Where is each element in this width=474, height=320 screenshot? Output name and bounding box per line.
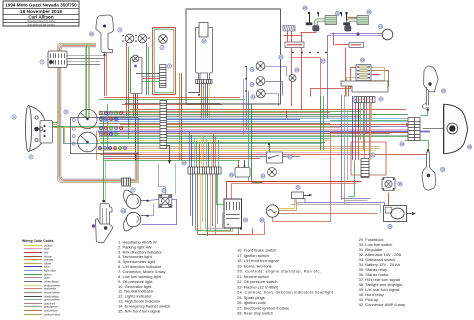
svg-text:27: 27 (379, 97, 383, 101)
wire starter motor positive (407, 213, 413, 215)
svg-text:22. Oil pressure switch: 22. Oil pressure switch (237, 279, 277, 284)
svg-text:34: 34 (244, 218, 248, 222)
wire drop to strip 5 (199, 144, 201, 167)
controls board (right handlebar switch 20) (153, 28, 176, 95)
spark plug cap right (345, 26, 351, 32)
coil low-voltage connector left (285, 42, 304, 48)
ignition switch key box (199, 23, 208, 38)
svg-text:27: 27 (279, 55, 283, 59)
svg-text:41: 41 (379, 25, 383, 29)
panel lamp pin cluster lower (99, 126, 102, 129)
wire center vertical bundle (248, 95, 250, 182)
wire harness run y124.6 (120, 124, 406, 126)
svg-text:23: 23 (295, 68, 299, 72)
svg-text:16. Front brake switch: 16. Front brake switch (237, 248, 276, 253)
label callout 15 (250, 67, 254, 71)
svg-text:42: 42 (371, 153, 375, 157)
label callout 29 (360, 58, 364, 62)
svg-text:17. Ignition switch: 17. Ignition switch (237, 253, 269, 258)
svg-text:31: 31 (296, 186, 300, 190)
svg-text:26: 26 (367, 10, 371, 14)
wire harness run y148.0 (99, 148, 380, 150)
label callout 27 (279, 55, 283, 59)
wire ignition switch lead 3 (205, 84, 207, 119)
wire stoplight run arrow (406, 123, 410, 126)
svg-text:17: 17 (202, 39, 206, 43)
wire harness run y150.0 (100, 150, 376, 152)
wire harness branch strand 1 (85, 45, 87, 119)
wire below strip x202.5 (202, 174, 204, 222)
flasher unit 23 (235, 168, 250, 178)
legend swatch yellow/white (24, 285, 42, 287)
legend swatch brown (24, 256, 42, 258)
wire coil-to-coil pair (348, 17, 357, 19)
wire harness run y158.5 (103, 158, 260, 160)
title block (3, 1, 79, 26)
legend swatch blue (24, 266, 42, 268)
connector Molex (dash harness) (48, 51, 67, 68)
lever blade (96, 219, 114, 243)
wire alternator output run (278, 213, 378, 215)
svg-text:20. Controls: engine start/sto: 20. Controls: engine start/stop, Run etc… (237, 269, 321, 274)
wire drop to strip 1 (189, 132, 191, 167)
connector pin dots (292, 52, 294, 54)
legend swatch brown/white (24, 292, 42, 294)
label callout 1 (12, 115, 16, 119)
wire harness run y116.0 (100, 116, 361, 118)
wire drop to strip 13 (218, 140, 220, 167)
wire board drop 1 (179, 73, 181, 160)
wire headlamp lead 2 (50, 124, 58, 126)
wire harness run y156.5 (103, 156, 300, 158)
label callout 35 (398, 182, 402, 186)
svg-text:yellow/black: yellow/black (44, 313, 61, 317)
wire harness branch strand 4 (89, 45, 91, 119)
wire drop to strip 8 (206, 139, 208, 167)
ignition coil 26 left HT cable (316, 20, 326, 26)
ignition coil 26 right body (357, 16, 368, 25)
svg-text:23: 23 (230, 173, 234, 177)
label callout 38 (467, 145, 471, 149)
svg-text:Carl Allison: Carl Allison (28, 14, 54, 19)
label callout 24 (121, 209, 125, 213)
wire harness run y135.0 (100, 135, 420, 137)
label callout 17 (202, 39, 206, 43)
wire module lead 5 (366, 103, 368, 134)
svg-text:32: 32 (260, 218, 264, 222)
wire neutral switch feed (269, 144, 271, 152)
legend swatch red (24, 252, 42, 254)
lower connector strip (188, 167, 221, 174)
starter motor 36 (384, 206, 407, 222)
wire drop to strip 9 (208, 142, 210, 167)
regulator 31 (292, 192, 304, 199)
connector ladder lower (160, 101, 167, 149)
wire orange drop (96, 131, 98, 160)
ignition coil 26 right HT cable (348, 20, 358, 26)
label callout 22 (261, 174, 265, 178)
wire below strip x200 (200, 174, 202, 232)
ground lead (164, 146, 170, 161)
headlamp 1 (26, 106, 32, 152)
legend swatch red/yellow (24, 310, 42, 312)
connector ladder upper (160, 65, 167, 88)
wire module lead 3 (360, 103, 362, 140)
headlamp connector (40, 121, 53, 144)
label callout 27 (379, 97, 383, 101)
horn relay 40 (159, 195, 172, 208)
wire starter relay to motor (388, 193, 390, 207)
ignition switch connector (196, 80, 213, 84)
R/H front turn signal 15 (256, 62, 265, 71)
panel terminal circles (72, 119, 75, 122)
wire below strip x195 (195, 174, 197, 230)
svg-text:35: 35 (398, 182, 402, 186)
electronic ignition module 27 (341, 81, 388, 92)
svg-text:and wiring of the model: and wiring of the model (28, 22, 55, 26)
wire below strip x207.5 (207, 174, 209, 236)
wire horn leads (148, 200, 159, 201)
wire harness run y114.4 (99, 114, 408, 116)
wire harness run y109.5 (130, 109, 406, 111)
label callout 41 (378, 24, 382, 28)
label callout 7 (167, 64, 171, 68)
alternator 32 (266, 205, 278, 217)
svg-text:27: 27 (321, 59, 325, 63)
wire harness branch strand 3 (88, 45, 90, 119)
tachometer 4 (78, 109, 97, 128)
legend swatch gray/red (24, 303, 42, 305)
spark plug cap left (313, 26, 319, 32)
svg-text:25: 25 (303, 6, 307, 10)
svg-text:18. L/H front turn signal: 18. L/H front turn signal (237, 258, 279, 263)
pick up 41 (382, 29, 393, 40)
wire below strip x215 (215, 174, 217, 234)
wire harness run y131.2 (98, 131, 430, 133)
legend swatch yellow/black (24, 314, 42, 316)
svg-text:20: 20 (182, 161, 186, 165)
wire connector stubs top-right (335, 44, 351, 46)
svg-text:24. Controls: horn, direction: 24. Controls: horn, direction indicators… (237, 290, 334, 295)
label callout 32 (260, 218, 264, 222)
wire drop to strip 10 (211, 145, 213, 167)
wire drop to strip 4 (196, 141, 198, 167)
battery 34 (224, 199, 242, 228)
wire below strip x190 (190, 174, 192, 216)
wire harness run y111.2 (99, 111, 360, 113)
svg-text:+: + (227, 222, 230, 228)
spark plug 25 left (306, 22, 313, 25)
label callout 7 (131, 188, 135, 192)
wire right bundle verticals (341, 95, 343, 200)
wire module lead 1 (355, 103, 357, 160)
wire headlamp feed (54, 127, 64, 144)
wire ignition switch lead 5 (209, 84, 211, 119)
wire below strip x217.5 (217, 174, 219, 224)
wire bulb pair verticals (126, 62, 128, 118)
wire harness run y146.0 (120, 146, 380, 148)
wire taillight lead 2 (330, 126, 408, 128)
wire ignition-to-board links (136, 73, 160, 75)
wire drop to strip 12 (215, 137, 217, 167)
svg-text:Wiring Color Codes: Wiring Color Codes (22, 239, 54, 243)
connector AMP 6-way 42 (361, 159, 369, 178)
wire drop to strip 3 (194, 138, 196, 167)
taillight connector (408, 118, 420, 141)
svg-text:18: 18 (250, 83, 254, 87)
svg-text:21: 21 (288, 155, 292, 159)
high beam indicator lamp 13 (138, 34, 147, 43)
label callout 19 (121, 209, 125, 213)
wire front brake switch drop (104, 34, 106, 96)
legend swatch green (24, 274, 42, 276)
wire harness run y104.6 (122, 104, 222, 106)
wire harness run y160.5 (103, 160, 240, 162)
module connector strip (354, 97, 375, 103)
wire harness loop strand 3 (60, 46, 137, 181)
svg-text:24: 24 (162, 189, 166, 193)
instrument panel (71, 118, 139, 154)
label callout 18 (250, 82, 254, 86)
svg-text:22: 22 (261, 174, 265, 178)
svg-text:27. Electronic ignition module: 27. Electronic ignition module (237, 305, 290, 310)
label callout 3 (118, 28, 122, 32)
label callout 20 (182, 161, 186, 165)
legend swatch white/black (24, 281, 42, 283)
wire module lead 6 (369, 103, 371, 158)
wire below strip x205 (205, 174, 207, 228)
wire drop to strip 7 (203, 136, 205, 167)
svg-text:15. R/H front turn signal: 15. R/H front turn signal (118, 308, 160, 313)
label callout 27 (321, 59, 325, 63)
wire sidestand switch lead (349, 161, 355, 197)
label callout 14 (251, 95, 255, 99)
label callout 21 (288, 155, 292, 159)
wire harness run y119.6 (104, 119, 300, 121)
coil low-voltage connector right (349, 42, 364, 47)
wire clutch lever lead (103, 118, 105, 201)
wire harness run y136.8 (99, 136, 408, 138)
svg-text:16: 16 (90, 32, 94, 36)
svg-text:38: 38 (468, 145, 472, 149)
legend swatch black/white (24, 296, 42, 298)
svg-text:15: 15 (250, 68, 254, 72)
wire module lead 4 (363, 103, 365, 150)
label callout 7 (40, 60, 44, 64)
panel connector row bottom (98, 146, 101, 149)
wire spark plug stems (309, 14, 311, 24)
wire harness run y152.0 (103, 152, 360, 154)
svg-text:26. Ignition coils: 26. Ignition coils (237, 300, 266, 305)
speedometer 5 (78, 132, 98, 152)
label callout 37 (441, 89, 445, 93)
wire indicator lamp leads (266, 67, 287, 77)
ignition coil 26 left body (325, 16, 336, 25)
wire drop to strip 11 (213, 134, 215, 167)
wire harness loop strand 1 (58, 44, 139, 183)
turn indicator lamp 3 (125, 34, 134, 43)
wire harness run y121.2 (100, 121, 408, 123)
wire harness run y118.0 (99, 118, 420, 120)
label callout 34 (243, 218, 247, 222)
wire below strip x197.5 (197, 174, 199, 234)
wire headlamp lead 3 (50, 126, 58, 128)
wire harness run y129.4 (120, 129, 420, 131)
wire upper band pair (104, 97, 240, 99)
wire bulb drops top-left (126, 43, 128, 62)
front position lamp (256, 89, 265, 98)
wire harness run y138.6 (100, 138, 330, 140)
legend swatch green/white (24, 299, 42, 301)
label callout 30 (400, 142, 404, 146)
wire taillight lead 1 (330, 120, 408, 122)
spark plug 25 right (343, 22, 350, 25)
L/H front turn signal 18 (256, 77, 265, 86)
legend swatch light blue (24, 270, 42, 272)
wire fuseblock loops (372, 68, 385, 81)
taillight 38 (444, 104, 468, 153)
wire grid fan-out (67, 55, 104, 57)
label callout 23 (295, 68, 299, 72)
svg-text:14: 14 (251, 95, 255, 99)
legend swatch gray/green (24, 306, 42, 308)
label callout 33 (441, 167, 445, 171)
wire board drop 2 (181, 73, 183, 160)
wire harness run y126.2 (53, 126, 380, 128)
wire harness run y103.0 (125, 103, 220, 105)
wire flasher feeds (238, 160, 240, 168)
svg-text:24: 24 (121, 209, 125, 213)
oil pressure switch 22 (268, 168, 277, 177)
parking lamp 2 (159, 35, 168, 44)
svg-text:30: 30 (400, 142, 404, 146)
fuseblock 29 (356, 65, 371, 81)
svg-text:1994 Moto Guzzi Nevada 350/750: 1994 Moto Guzzi Nevada 350/750 (5, 2, 77, 7)
wire ignition switch lead 1 (201, 84, 203, 119)
horn 19 lower (126, 212, 140, 226)
label callout 8 (64, 110, 68, 114)
wire harness run y133.2 (99, 133, 390, 135)
legend swatch hazel (24, 263, 42, 265)
wire battery leads (217, 169, 225, 205)
legend swatch gray (24, 277, 42, 279)
neutral switch 21 (267, 152, 283, 163)
svg-text:42. Connector AMP 6-way: 42. Connector AMP 6-way (359, 302, 405, 307)
wire ignition switch drops (133, 94, 135, 118)
emergency flasher switch lamp (289, 75, 296, 82)
wire alternator-regulator leads (252, 182, 263, 184)
frame outline box (186, 9, 281, 104)
lights switch with lamp (131, 58, 143, 94)
wire rear turn signal leads (421, 110, 428, 116)
label callout 2 (160, 45, 164, 49)
wire ignition switch lead 2 (203, 84, 205, 119)
label callout 26 (335, 11, 339, 15)
wire harness run y143.6 (63, 143, 322, 145)
wire headlamp lead 1 (50, 122, 58, 124)
wire ignition switch lead 4 (207, 84, 209, 119)
sidestand switch 33 / L/H rear turn signal (422, 152, 436, 190)
label callout 26 (367, 10, 371, 14)
wire pick-up leads (330, 33, 382, 35)
label callout 25 (303, 6, 307, 10)
legend swatch orange (24, 259, 42, 261)
horn 19 upper (126, 194, 140, 208)
label callout 16 (89, 32, 93, 36)
svg-text:29: 29 (361, 58, 365, 62)
label callout 23 (229, 173, 233, 177)
wire module lead 7 (371, 103, 373, 120)
wire harness run y142.2 (100, 142, 325, 144)
wire drop to strip 6 (201, 133, 203, 167)
clutch lever switch 24 (100, 204, 112, 229)
turn signal stalk (426, 87, 428, 106)
wire harness run y140.4 (99, 140, 330, 142)
wire coil supply run (292, 49, 321, 97)
wire harness run y123.0 (99, 123, 330, 125)
wire harness loop strand 2 (59, 45, 138, 182)
wire below strip x192.5 (192, 174, 194, 226)
wire module lead 2 (358, 103, 360, 128)
wire coil feeds (301, 32, 303, 110)
legend swatch red/white (24, 288, 42, 290)
label callout 24 (162, 188, 166, 192)
label callout 31 (296, 185, 300, 189)
svg-text:36: 36 (388, 225, 392, 229)
wire clutch switch vertical (107, 104, 109, 150)
wire drop to strip 2 (191, 135, 193, 167)
wire ignition switch ground (189, 84, 200, 93)
wire harness run y127.8 (53, 127, 340, 129)
svg-text:37: 37 (442, 89, 446, 93)
legend swatch yellow (24, 245, 42, 247)
svg-text:21. Neutral switch: 21. Neutral switch (237, 274, 269, 279)
wire harness run y112.8 (104, 112, 330, 114)
label callout 2 (29, 155, 33, 159)
wire pick-up bend down (328, 36, 331, 119)
svg-text:26: 26 (336, 12, 340, 16)
wire below strip x212.5 (212, 174, 214, 226)
svg-text:28. Rear stop switch: 28. Rear stop switch (237, 311, 273, 316)
panel lamp pin cluster upper (99, 111, 102, 114)
wire harness loop strand 4 (61, 47, 135, 179)
svg-text:19. Horns, two-tone: 19. Horns, two-tone (237, 263, 273, 268)
R/H rear turn signal 37 (424, 66, 439, 92)
label callout 36 (388, 224, 392, 228)
starter relay 35 (382, 178, 395, 191)
wire taillight lead 3 (330, 132, 408, 134)
wire below strip x210 (210, 174, 212, 230)
svg-text:25. Spark plugs: 25. Spark plugs (237, 295, 265, 300)
svg-text:23. Flasher (12 V 46W): 23. Flasher (12 V 46W) (237, 284, 279, 289)
legend swatch pink (24, 248, 42, 250)
svg-text:33: 33 (441, 168, 445, 172)
accessory connector (hatched) (283, 26, 295, 32)
wire harness branch strand 2 (86, 45, 88, 119)
wire accessory connector stubs (284, 35, 302, 37)
connector Molex 4-way 7 (122, 178, 131, 186)
ignition switch 17 (196, 28, 213, 80)
label callout 42 (371, 153, 375, 157)
wire harness run y154.0 (100, 154, 430, 156)
rear harness box (351, 142, 386, 175)
front brake switch 16 (96, 15, 114, 53)
